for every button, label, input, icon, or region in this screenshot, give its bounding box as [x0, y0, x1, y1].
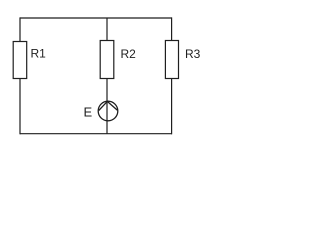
wire right branch upper	[171, 17, 173, 40]
source E circle	[98, 101, 118, 121]
wire left branch upper	[19, 17, 21, 41]
resistor R1	[13, 42, 27, 79]
svg-text:R2: R2	[121, 47, 137, 61]
wire middle branch through source	[106, 79, 108, 134]
svg-text:E: E	[84, 105, 93, 120]
wire left branch lower	[19, 78, 21, 134]
wire middle branch upper	[106, 18, 108, 41]
source E arrowhead right	[107, 101, 117, 110]
wire bottom rail	[20, 133, 172, 135]
resistor R3	[165, 41, 178, 79]
source E arrowhead left	[99, 101, 108, 110]
wire top rail	[20, 17, 172, 19]
resistor R2	[100, 41, 114, 79]
svg-text:R1: R1	[31, 47, 47, 61]
wire right branch lower	[171, 79, 173, 135]
svg-text:R3: R3	[185, 47, 201, 61]
